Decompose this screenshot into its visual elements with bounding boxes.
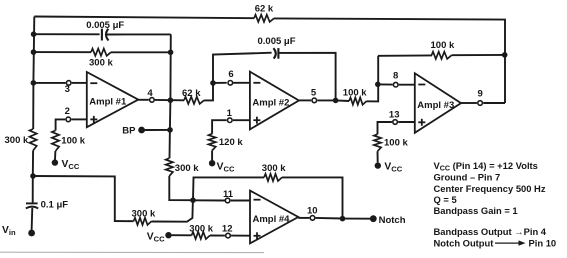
- resistor 100 k (pin 2 bias): [52, 131, 59, 152]
- svg-text:Center Frequency 500 Hz: Center Frequency 500 Hz: [434, 183, 546, 194]
- svg-text:62 k: 62 k: [255, 4, 274, 15]
- wire: pin 3 to Ampl #1: [72, 82, 87, 84]
- wire: output node to 100 k: [336, 99, 349, 102]
- wire: pin 8 to Ampl #3: [399, 84, 415, 86]
- junction: pin 11 node: [190, 197, 196, 203]
- terminal Notch (notch output): [370, 215, 377, 222]
- op-amp Ampl #2: [250, 72, 299, 130]
- svg-text:300 k: 300 k: [175, 163, 199, 174]
- svg-text:100 k: 100 k: [431, 40, 455, 51]
- svg-text:VCC: VCC: [384, 162, 402, 174]
- wire: pin 13 to 100 k: [378, 122, 392, 134]
- svg-text:3: 3: [65, 84, 70, 95]
- pin 10 (Ampl #4 output, notch): [310, 216, 315, 221]
- junction: Ampl #2 output node: [333, 98, 339, 104]
- svg-text:300 k: 300 k: [132, 208, 156, 219]
- wire: 100 k to VCC (pin 13 bias): [377, 151, 379, 162]
- junction: output node / vertical branch: [168, 97, 174, 103]
- svg-text:Bandpass Output →Pin 4: Bandpass Output →Pin 4: [434, 226, 547, 237]
- wire: Ampl #1 output to pin 4: [138, 99, 149, 101]
- pin 12 (Ampl #4 non-inverting input): [226, 233, 231, 238]
- wire: Ampl #3 feedback to output vertical: [452, 54, 506, 56]
- svg-text:2: 2: [65, 106, 70, 117]
- svg-text:Notch: Notch: [379, 215, 406, 226]
- power VCC (pin 2 bias): [52, 159, 80, 171]
- wire: VCC to 300 k (pin 12): [172, 234, 192, 236]
- svg-text:300 k: 300 k: [5, 135, 29, 146]
- wire: input node to pin 8: [378, 83, 393, 85]
- pin 3 (Ampl #1 inverting input): [66, 81, 71, 86]
- junction: notch node: [340, 216, 346, 222]
- junction: rail / Vin path: [30, 173, 36, 179]
- wire: top feedback net, left segment from rail to 62 k: [34, 17, 254, 19]
- wire: 100 k to VCC (pin 2 bias): [54, 151, 56, 160]
- svg-text:Ampl #1: Ampl #1: [89, 97, 127, 108]
- wire: 300 k to pin 11 node: [152, 200, 193, 221]
- wire: left input rail (top corner down to 0.1uF cap): [33, 17, 34, 130]
- wire: pin 6 to Ampl #2: [233, 82, 250, 84]
- resistor 62 k (overall feedback, top): [254, 15, 274, 22]
- wire: top feedback net, right segment to Ampl #3 output: [274, 18, 505, 103]
- power VCC (pin 13 bias): [375, 162, 403, 174]
- wire: BP terminal to vertical branch: [145, 129, 171, 131]
- resistor 100 k (pin 13 bias): [374, 134, 381, 151]
- svg-text:Notch Output: Notch Output: [434, 237, 494, 248]
- svg-text:Ampl #3: Ampl #3: [417, 100, 454, 111]
- wire: Ampl #4 output to pin 10: [298, 217, 309, 219]
- op-amp Ampl #1: [87, 72, 139, 127]
- svg-text:8: 8: [393, 71, 398, 82]
- junction: Ampl #3 input node / pin 8 wire: [375, 82, 381, 88]
- junction: rail / res feedback: [31, 49, 37, 55]
- wire: pin 11 to Ampl #4: [231, 200, 250, 202]
- terminal BP (bandpass output tap): [138, 127, 145, 134]
- op-amp Ampl #4: [250, 191, 298, 244]
- resistor 300 k (Ampl #4 feedback): [264, 174, 282, 181]
- svg-text:Vin: Vin: [2, 225, 16, 237]
- junction: vertical branch / BP wire: [167, 127, 173, 133]
- wire: Ampl #4 feedback to notch node: [282, 177, 343, 218]
- svg-text:4: 4: [147, 88, 153, 99]
- pin 4 (Ampl #1 output, bandpass): [150, 98, 155, 103]
- svg-text:62 k: 62 k: [182, 88, 201, 99]
- wire: pin 4 to 62 k: [155, 99, 184, 101]
- pin 8 (Ampl #3 inverting input): [393, 82, 398, 87]
- svg-text:100 k: 100 k: [61, 136, 85, 147]
- wire: rail to pin 3: [33, 82, 65, 84]
- resistor 300 k (bandpass to Ampl #4 pin 11): [166, 158, 173, 176]
- wire: left rail below 300 k to 0.1uF cap: [32, 151, 34, 203]
- svg-text:VCC: VCC: [147, 232, 165, 244]
- capacitor 0.005 uF (Ampl #2 feedback): [273, 48, 278, 59]
- power VCC (pin 1 bias): [209, 160, 235, 174]
- wire: pin 5 to output node: [318, 99, 336, 101]
- resistor 300 k (pin 12 bias): [192, 232, 211, 239]
- wire: input node to pin 6: [213, 82, 227, 84]
- wire: Ampl #2 cap feedback to output node: [279, 53, 336, 101]
- junction: rail / pin 3 wire: [31, 80, 37, 86]
- power VCC (pin 12 bias): [147, 232, 172, 244]
- wire: pin 1 to 120 k: [212, 120, 227, 134]
- pin 5 (Ampl #2 output): [312, 98, 317, 103]
- svg-text:6: 6: [228, 69, 233, 80]
- junction: feedback branch at cap/res vertical: [168, 50, 174, 56]
- capacitor 0.005 uF (Ampl #1 feedback): [102, 29, 109, 41]
- pin 6 (Ampl #2 inverting input): [228, 81, 233, 86]
- wire: Ampl #3 feedback top: [378, 54, 432, 56]
- wire: Ampl #2 cap feedback, up and across: [213, 53, 272, 83]
- junction: Ampl #2 input node / cap feedback: [210, 80, 216, 86]
- wire: Ampl #1 res feedback, rail to 300 k: [33, 51, 91, 53]
- resistor 300 k (input, left rail): [30, 129, 37, 151]
- wire: Ampl #1 res feedback, 300 k to output branch: [111, 51, 171, 53]
- pin 13 (Ampl #3 non-inverting input): [393, 120, 398, 125]
- junction: rail / cap feedback: [31, 31, 37, 37]
- svg-text:VCC: VCC: [62, 159, 80, 171]
- svg-text:0.005 μF: 0.005 μF: [86, 20, 124, 31]
- capacitor 0.1 uF (input coupling): [26, 203, 38, 208]
- wire: pin 10 to notch node: [316, 217, 343, 220]
- note line 7: Notch Output -> Pin 10: [434, 237, 557, 248]
- wire: Ampl #2 output to pin 5: [299, 99, 311, 101]
- wire: notch node to Notch terminal: [343, 218, 371, 220]
- svg-text:300 k: 300 k: [189, 223, 213, 234]
- svg-text:0.1 μF: 0.1 μF: [41, 199, 69, 210]
- scan artifact: faint bottom line: [0, 251, 264, 253]
- junction: feedback / top net vertical at Ampl #3 output: [502, 52, 508, 58]
- pin 1 (Ampl #2 non-inverting input): [228, 118, 233, 123]
- svg-text:Ground – Pin 7: Ground – Pin 7: [434, 172, 501, 183]
- pin 11 (Ampl #4 inverting input): [225, 198, 230, 203]
- wire: pin 1 branch: [233, 119, 250, 121]
- svg-text:Ampl #4: Ampl #4: [253, 214, 291, 225]
- svg-text:300 k: 300 k: [89, 58, 113, 69]
- pin 2 (Ampl #1 non-inverting input): [66, 117, 71, 122]
- svg-text:Bandpass Gain = 1: Bandpass Gain = 1: [434, 205, 518, 216]
- wire: Ampl #1 cap feedback, rail to capacitor: [34, 33, 100, 35]
- wire: vertical branch below 300 k to pin 11 rail: [169, 176, 193, 200]
- wire: Ampl #3 output to pin 9: [461, 102, 477, 104]
- resistor 300 k (Ampl #1 feedback): [91, 49, 111, 56]
- svg-text:100 k: 100 k: [384, 138, 408, 149]
- wire: 120 k to VCC (pin 1 bias): [211, 151, 213, 161]
- wire: 0.1uF cap to Vin terminal: [31, 208, 34, 231]
- resistor 100 k (Ampl #3 feedback): [432, 52, 452, 59]
- svg-text:100 k: 100 k: [343, 88, 367, 99]
- svg-text:11: 11: [223, 189, 234, 200]
- svg-text:VCC: VCC: [217, 162, 235, 174]
- wire: pin 9 to top net vertical: [483, 102, 505, 104]
- wire: Vin path from rail: [33, 176, 134, 221]
- resistor 120 k (pin 1 bias): [209, 134, 216, 151]
- svg-text:Pin 10: Pin 10: [529, 237, 557, 248]
- svg-text:12: 12: [222, 223, 233, 234]
- svg-text:Ampl #2: Ampl #2: [252, 98, 289, 109]
- terminal Vin (input node): [28, 230, 35, 237]
- wire: pin 13 branch: [398, 121, 415, 123]
- wire: 300 k to pin 12: [210, 235, 225, 237]
- svg-text:120 k: 120 k: [219, 137, 243, 148]
- svg-text:300 k: 300 k: [262, 163, 286, 174]
- svg-text:0.005 μF: 0.005 μF: [258, 36, 296, 47]
- resistor 62 k (Ampl #1 to Ampl #2): [184, 97, 204, 104]
- pin 9 (Ampl #3 output): [478, 101, 483, 106]
- wire: 62 k to Ampl #2 input node: [204, 83, 213, 100]
- resistor 100 k (Ampl #2 to Ampl #3): [349, 98, 367, 105]
- svg-text:10: 10: [307, 205, 318, 216]
- op-amp Ampl #3: [415, 73, 461, 133]
- wire: pin 2 branch (100 k bias): [71, 118, 86, 120]
- wire: pin 12 to Ampl #4: [231, 235, 250, 237]
- wire: Ampl #1 cap feedback, capacitor to output branch: [106, 33, 171, 35]
- svg-text:BP: BP: [122, 125, 136, 136]
- svg-text:Q = 5: Q = 5: [434, 194, 457, 205]
- svg-text:13: 13: [389, 109, 400, 120]
- resistor 300 k (Vin to Ampl #4): [134, 218, 152, 225]
- wire: vertical branch to pin 11: [193, 199, 225, 201]
- svg-text:9: 9: [478, 89, 483, 100]
- svg-text:5: 5: [311, 88, 317, 99]
- wire: 100 k to Ampl #3 input node: [367, 56, 379, 102]
- wire: Ampl #1 output branch vertical (cap level down to 300 k to Ampl #4): [170, 34, 171, 158]
- svg-text:1: 1: [227, 108, 233, 119]
- wire: pin 2 to 100 k: [56, 119, 66, 130]
- wire: Ampl #4 feedback, up and across: [193, 177, 264, 200]
